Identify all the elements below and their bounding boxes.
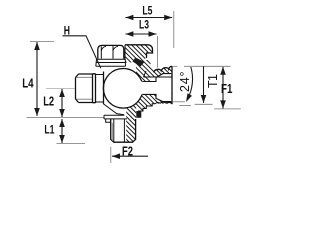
bottom washer plate xyxy=(104,115,127,119)
svg-text:L1: L1 xyxy=(44,125,54,137)
dim F2 arrow xyxy=(112,155,148,157)
left stud thread minor lines xyxy=(77,77,93,99)
L1 bottom ref line xyxy=(57,142,86,144)
washer under locknut xyxy=(96,59,126,66)
right port nut bottom band + staircase xyxy=(136,90,172,111)
body section right of ball xyxy=(136,60,151,102)
cone edge extension line xyxy=(173,101,185,103)
svg-text:L5: L5 xyxy=(142,6,152,18)
dim L3 line xyxy=(125,33,156,35)
svg-text:F1: F1 xyxy=(221,83,233,97)
body underside diagonal xyxy=(103,104,124,115)
left stud end ring xyxy=(93,74,96,104)
bottom stud bore wall xyxy=(123,119,125,142)
svg-text:T1: T1 xyxy=(206,74,220,88)
L4 bottom ref line xyxy=(27,116,104,118)
dark seal top xyxy=(133,58,145,67)
bottom plate lip xyxy=(106,119,111,122)
dim T1 xyxy=(203,66,205,103)
ball body xyxy=(103,69,143,109)
svg-text:L3: L3 xyxy=(139,19,149,31)
dim L2 line xyxy=(61,89,63,117)
bottom stud thread minor line xyxy=(111,123,113,141)
right port bore and cone (white) xyxy=(141,74,171,102)
body section top block outline xyxy=(125,45,153,58)
dark seal bottom xyxy=(136,111,141,118)
24deg bottom tick xyxy=(179,105,191,107)
right port face xyxy=(171,66,173,104)
right port nut top band lower edge xyxy=(144,71,173,77)
left stud shank to body xyxy=(96,75,104,103)
body section bottom column xyxy=(126,100,136,119)
svg-text:H: H xyxy=(64,25,70,37)
right port bore lines xyxy=(143,74,172,102)
right top ref line xyxy=(173,65,178,67)
24deg arc xyxy=(187,67,192,100)
svg-text:L2: L2 xyxy=(43,96,54,110)
bottom stud facet xyxy=(113,119,115,142)
body section top block xyxy=(125,45,153,63)
left stud thread body xyxy=(76,74,93,103)
L4 top ref line xyxy=(30,41,54,43)
top locknut facets xyxy=(101,46,113,59)
bottom stud section right half xyxy=(126,119,135,142)
body section top block left edge xyxy=(124,45,126,60)
top locknut hex xyxy=(98,45,124,58)
right port nut bottom edge and staircase outline xyxy=(139,102,172,118)
dim L1 line xyxy=(61,119,63,143)
bottom stud outline xyxy=(111,119,136,142)
centerline left xyxy=(46,87,75,89)
dim L4 line xyxy=(36,42,38,116)
svg-text:F2: F2 xyxy=(122,145,133,159)
body section wedge to right port xyxy=(133,58,157,75)
dim L5 ext line xyxy=(173,11,175,48)
svg-text:24°: 24° xyxy=(178,72,192,93)
right port nut top band xyxy=(144,66,173,77)
dim F1 xyxy=(222,67,224,109)
dim L5 line xyxy=(125,17,172,19)
T1 bottom tick xyxy=(195,103,213,105)
F1 bottom ref line xyxy=(214,108,241,110)
dim L3 ext line xyxy=(157,36,159,68)
svg-text:L4: L4 xyxy=(22,77,34,91)
top locknut facet chamfer arcs xyxy=(101,46,118,50)
right port nut outline xyxy=(154,66,173,72)
leader H xyxy=(63,36,101,68)
body left face xyxy=(103,72,105,104)
dim F2 ext line xyxy=(110,147,112,163)
